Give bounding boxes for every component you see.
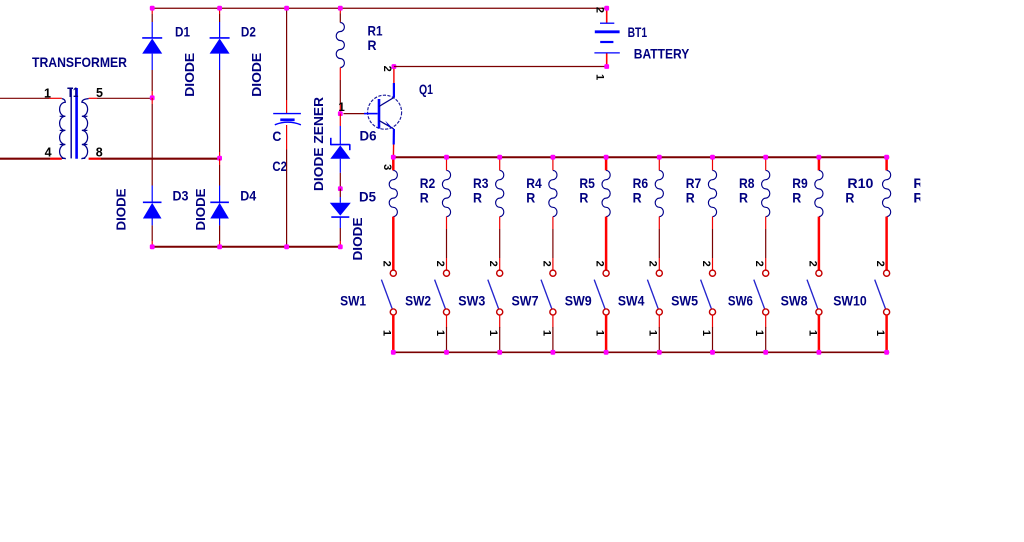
svg-text:D5: D5 bbox=[359, 189, 376, 205]
svg-text:D2: D2 bbox=[241, 24, 256, 40]
node G junction at battery bottom bbox=[604, 64, 609, 69]
resistor R6 bbox=[602, 170, 610, 216]
svg-text:1: 1 bbox=[594, 74, 606, 80]
svg-text:SW3: SW3 bbox=[458, 293, 485, 309]
switch SW2 bbox=[443, 270, 449, 276]
switch SW10 bbox=[884, 270, 890, 276]
transistor Q1 bbox=[368, 95, 402, 129]
wire D2 anode to node B bbox=[219, 54, 221, 70]
svg-text:R: R bbox=[368, 37, 377, 53]
wire bank rail to resistor R5 bbox=[552, 157, 554, 170]
wire resistor R10 to switch SW8 bbox=[818, 217, 821, 271]
wire AC input bottom from left edge to T1 pin 4 bbox=[0, 158, 50, 160]
diode D2 bbox=[210, 38, 230, 54]
wire switch SW4 to bottom rail bbox=[658, 315, 660, 328]
diode D1 bbox=[142, 38, 162, 54]
svg-text:1: 1 bbox=[434, 330, 446, 336]
wire switch SW10 to bottom rail bbox=[885, 315, 888, 352]
wire node B to D4 cathode bbox=[219, 159, 221, 165]
svg-text:1: 1 bbox=[753, 330, 765, 336]
node C junction (R1, D6, Q1 base) bbox=[338, 111, 343, 116]
svg-text:DIODE: DIODE bbox=[182, 52, 197, 96]
svg-text:1: 1 bbox=[44, 87, 51, 101]
wire D5 cathode to bottom rail bbox=[339, 217, 341, 228]
transformer T1 primary winding bbox=[60, 99, 66, 159]
svg-text:SW5: SW5 bbox=[671, 293, 698, 309]
svg-text:C2: C2 bbox=[272, 158, 287, 174]
svg-text:D1: D1 bbox=[175, 24, 190, 40]
svg-text:2: 2 bbox=[381, 261, 393, 267]
wire bank rail to resistor R9 bbox=[765, 157, 767, 170]
svg-text:R: R bbox=[686, 189, 695, 205]
battery BT1 bbox=[600, 22, 614, 24]
wire resistor R2 to switch SW1 bbox=[392, 217, 395, 271]
svg-text:8: 8 bbox=[96, 146, 103, 160]
wire switch SW5 to bottom rail bbox=[712, 315, 714, 328]
svg-text:Q1: Q1 bbox=[419, 81, 433, 97]
svg-text:1: 1 bbox=[540, 330, 552, 336]
svg-text:D6: D6 bbox=[360, 127, 377, 143]
switch SW3 bbox=[497, 270, 503, 276]
resistor R8 bbox=[708, 170, 716, 216]
wire bank rail to resistor R11 bbox=[885, 157, 888, 170]
svg-text:2: 2 bbox=[434, 261, 446, 267]
diode D4 bbox=[210, 202, 229, 218]
wire capacitor C2 to bottom rail bbox=[286, 125, 288, 150]
wire top rail to capacitor C2 bbox=[286, 8, 288, 100]
svg-text:SW8: SW8 bbox=[781, 293, 808, 309]
wire resistor R7 to switch SW4 bbox=[658, 217, 660, 229]
switch SW8 bbox=[816, 270, 822, 276]
svg-text:DIODE: DIODE bbox=[249, 52, 264, 96]
wire bank rail to resistor R6 bbox=[605, 157, 608, 170]
wire resistor R11 to switch SW10 bbox=[885, 217, 888, 271]
svg-text:2: 2 bbox=[594, 7, 606, 13]
svg-text:R: R bbox=[633, 189, 642, 205]
switch SW7 bbox=[550, 270, 556, 276]
svg-text:1: 1 bbox=[594, 330, 606, 336]
junction dots on bridge bottom rail bbox=[150, 244, 155, 249]
wire Q1 emitter down to bank rail bbox=[393, 129, 395, 145]
wire D6 anode to node D bbox=[339, 159, 341, 173]
wire switch SW2 to bottom rail bbox=[446, 315, 448, 328]
node A junction (T1 pin 5, D1, D3) bbox=[150, 95, 155, 100]
wire node A to D3 cathode bbox=[151, 98, 153, 104]
svg-text:R1: R1 bbox=[368, 22, 383, 38]
wire switch SW3 to bottom rail bbox=[499, 315, 501, 328]
wire switch SW9 to bottom rail bbox=[605, 315, 608, 352]
capacitor C2 bbox=[273, 113, 301, 115]
wire Q1 collector up to node E bbox=[393, 83, 395, 98]
svg-text:2: 2 bbox=[806, 261, 818, 267]
svg-text:R: R bbox=[420, 189, 429, 205]
wire bank bottom rail bbox=[393, 351, 889, 353]
svg-text:SW6: SW6 bbox=[728, 293, 753, 309]
resistor R9 bbox=[762, 170, 770, 216]
svg-text:2: 2 bbox=[540, 261, 552, 267]
svg-text:T1: T1 bbox=[67, 84, 78, 100]
wire bank rail to resistor R7 bbox=[658, 157, 660, 170]
wire bank rail to resistor R4 bbox=[499, 157, 501, 170]
svg-text:R: R bbox=[526, 189, 535, 205]
wire bank rail to resistor R10 bbox=[818, 157, 821, 170]
svg-text:SW9: SW9 bbox=[565, 293, 592, 309]
svg-text:2: 2 bbox=[753, 261, 765, 267]
wire R1 to node C (Q1 base) bbox=[339, 68, 341, 81]
svg-text:BATTERY: BATTERY bbox=[634, 45, 690, 61]
svg-text:5: 5 bbox=[96, 86, 103, 100]
svg-text:1: 1 bbox=[874, 330, 886, 336]
label R11 (clipped at edge) bbox=[913, 175, 938, 205]
wire bank top rail from Q1 emitter bbox=[393, 156, 889, 158]
switch SW9 bbox=[603, 270, 609, 276]
svg-text:SW10: SW10 bbox=[833, 293, 867, 309]
junction dots on V+ top rail bbox=[150, 6, 155, 11]
wire switch SW7 to bottom rail bbox=[552, 315, 554, 328]
transformer T1 core bbox=[70, 88, 72, 158]
svg-text:R: R bbox=[579, 189, 588, 205]
svg-text:SW1: SW1 bbox=[340, 293, 366, 309]
switch SW6 bbox=[763, 270, 769, 276]
svg-text:4: 4 bbox=[45, 146, 52, 160]
svg-text:D4: D4 bbox=[240, 188, 256, 204]
wire AC input top from left edge to T1 pin 1 bbox=[0, 97, 49, 99]
wire switch SW6 to bottom rail bbox=[765, 315, 767, 328]
svg-text:1: 1 bbox=[487, 330, 499, 336]
wire D3 anode to bottom rail bbox=[151, 219, 153, 226]
diode D3 bbox=[143, 202, 162, 218]
svg-text:R: R bbox=[845, 189, 854, 205]
wire battery BT1 negative to node G bbox=[606, 53, 608, 66]
wire resistor R4 to switch SW3 bbox=[499, 217, 501, 229]
junction dots on bank bottom rail bbox=[391, 350, 396, 355]
svg-text:R: R bbox=[792, 189, 801, 205]
svg-text:1: 1 bbox=[806, 330, 818, 336]
svg-text:1: 1 bbox=[381, 330, 393, 336]
svg-text:SW2: SW2 bbox=[405, 293, 431, 309]
svg-text:DIODE: DIODE bbox=[193, 188, 208, 230]
svg-text:SW7: SW7 bbox=[512, 293, 539, 309]
svg-text:DIODE: DIODE bbox=[350, 217, 365, 260]
wire switch SW8 to bottom rail bbox=[818, 315, 821, 352]
wire resistor R8 to switch SW5 bbox=[712, 217, 714, 229]
svg-text:1: 1 bbox=[700, 330, 712, 336]
wire top rail to battery BT1 positive bbox=[606, 8, 608, 23]
wire node D to D5 anode bbox=[339, 189, 341, 197]
resistor R7 bbox=[655, 170, 663, 216]
wire node E to battery negative bbox=[394, 66, 607, 68]
zener diode D6 bbox=[330, 138, 350, 159]
node B junction (T1 pin 8, D2, D4) bbox=[217, 156, 222, 161]
svg-text:2: 2 bbox=[594, 261, 606, 267]
wire V+ top rail from D1 to battery BT1 bbox=[152, 7, 607, 9]
wire T1 pin 8 to bridge node B bbox=[89, 158, 101, 160]
svg-text:1: 1 bbox=[647, 330, 659, 336]
resistor R11 bbox=[882, 170, 890, 216]
node F junction at battery top bbox=[604, 6, 609, 11]
svg-text:SW4: SW4 bbox=[618, 293, 645, 309]
wire resistor R3 to switch SW2 bbox=[446, 217, 448, 229]
wire resistor R5 to switch SW7 bbox=[552, 217, 554, 229]
wire top rail to D2 cathode bbox=[219, 8, 221, 14]
svg-text:R: R bbox=[739, 189, 748, 205]
wire D4 anode to bottom rail bbox=[219, 219, 221, 226]
wire top rail to R1 bbox=[339, 8, 341, 13]
svg-text:R: R bbox=[473, 189, 482, 205]
resistor R4 bbox=[496, 170, 504, 216]
node E junction at collector bbox=[392, 64, 397, 69]
svg-text:DIODE: DIODE bbox=[113, 188, 128, 230]
wire resistor R6 to switch SW9 bbox=[605, 217, 608, 271]
svg-text:TRANSFORMER: TRANSFORMER bbox=[32, 54, 127, 70]
svg-text:3: 3 bbox=[381, 164, 393, 170]
wire V- bottom rail of bridge bbox=[152, 246, 340, 248]
svg-text:2: 2 bbox=[700, 261, 712, 267]
node D junction between D6 and D5 bbox=[338, 186, 343, 191]
svg-text:2: 2 bbox=[647, 261, 659, 267]
wire bank rail to resistor R2 bbox=[392, 157, 395, 170]
junction dots on bank top rail bbox=[391, 155, 396, 160]
svg-text:2: 2 bbox=[487, 261, 499, 267]
resistor R1 bbox=[336, 23, 344, 68]
wire top rail to D1 cathode bbox=[151, 8, 153, 14]
wire switch SW1 to bottom rail bbox=[392, 315, 395, 352]
wire bank rail to resistor R3 bbox=[446, 157, 448, 170]
wire Q1 base from node C bbox=[344, 113, 365, 115]
resistor R10 bbox=[815, 170, 823, 216]
svg-text:BT1: BT1 bbox=[628, 24, 648, 40]
wire bank rail to resistor R8 bbox=[712, 157, 714, 170]
resistor R2 bbox=[389, 170, 397, 216]
wire D1 anode to node A bbox=[151, 54, 153, 70]
switch SW4 bbox=[656, 270, 662, 276]
svg-text:1: 1 bbox=[338, 102, 345, 114]
svg-text:C: C bbox=[272, 128, 281, 144]
resistor R5 bbox=[549, 170, 557, 216]
wire node C to zener D6 bbox=[339, 114, 341, 126]
wire T1 pin 5 to bridge node A bbox=[89, 97, 97, 99]
switch SW5 bbox=[709, 270, 715, 276]
svg-text:2: 2 bbox=[381, 66, 393, 72]
switch SW1 bbox=[390, 270, 396, 276]
transformer T1 secondary winding bbox=[82, 99, 89, 159]
wire resistor R9 to switch SW6 bbox=[765, 217, 767, 229]
svg-text:2: 2 bbox=[874, 261, 886, 267]
svg-text:D3: D3 bbox=[173, 188, 189, 204]
resistor R3 bbox=[442, 170, 450, 216]
diode D5 bbox=[330, 203, 351, 217]
svg-text:DIODE ZENER: DIODE ZENER bbox=[311, 96, 326, 191]
